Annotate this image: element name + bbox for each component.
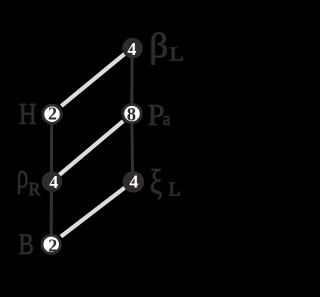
- label P_a: [148, 97, 171, 132]
- wire edge rho-B (vertical, dark): [50, 182, 54, 245]
- svg-text:2: 2: [48, 104, 57, 124]
- node Pa (order 8): [123, 104, 141, 125]
- node A (order 4, top): [122, 38, 143, 59]
- wire edge Pa-xi (vertical, dark): [130, 113, 134, 181]
- svg-text:B: B: [19, 228, 34, 261]
- svg-text:ρ: ρ: [17, 158, 29, 195]
- svg-text:4: 4: [127, 39, 136, 59]
- node B (order 2, bottom): [42, 235, 60, 255]
- svg-text:a: a: [163, 109, 171, 130]
- wire edge Pa-rho (diagonal, light): [52, 121, 124, 181]
- svg-text:L: L: [169, 43, 184, 65]
- label xi_L: [150, 162, 181, 201]
- svg-text:8: 8: [127, 106, 136, 126]
- wire edge H-rho (vertical, dark): [50, 114, 53, 182]
- wire edge xi-B (diagonal, light): [61, 181, 133, 236]
- svg-text:ξ: ξ: [150, 162, 163, 201]
- svg-text:4: 4: [129, 172, 138, 192]
- svg-text:R: R: [28, 179, 40, 199]
- label beta_L: [149, 26, 184, 65]
- svg-text:H: H: [19, 97, 37, 131]
- node xi (order 4): [123, 171, 145, 193]
- svg-text:4: 4: [49, 172, 58, 192]
- node H (order 2): [43, 104, 61, 124]
- svg-text:2: 2: [48, 235, 57, 255]
- label rho_R: [17, 158, 41, 199]
- wire edge A-H (diagonal, light): [61, 48, 132, 106]
- node rho (order 4): [42, 171, 63, 192]
- svg-text:L: L: [168, 179, 181, 201]
- svg-text:β: β: [149, 26, 168, 65]
- wire edge A-Pa (vertical, dark): [130, 48, 133, 114]
